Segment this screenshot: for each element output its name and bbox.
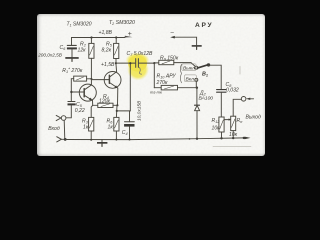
svg-text:Выкл: Выкл bbox=[183, 65, 195, 71]
ground (АРУ line) bbox=[192, 45, 202, 47]
resistor R12 bbox=[219, 117, 224, 132]
svg-text:тг-тк: тг-тк bbox=[150, 89, 163, 94]
resistor R6 (T2 emitter) bbox=[114, 117, 119, 131]
svg-text:+: + bbox=[128, 31, 132, 38]
resistor R1 (base bias, starred) bbox=[74, 76, 87, 81]
svg-text:R9 150к: R9 150к bbox=[160, 56, 179, 62]
supply rail right arrowhead bbox=[125, 36, 133, 38]
node: +1,5V collector node bbox=[115, 62, 117, 64]
box around Выкл bbox=[182, 64, 196, 71]
svg-text:1к: 1к bbox=[83, 124, 89, 130]
node: C4 branch junction bbox=[116, 110, 118, 112]
svg-text:1к: 1к bbox=[108, 124, 114, 130]
transistor T2 bbox=[104, 72, 121, 89]
resistor R5 bbox=[115, 38, 117, 44]
svg-text:8,2к: 8,2к bbox=[102, 48, 112, 54]
svg-text:АРУ: АРУ bbox=[195, 22, 213, 29]
resistor R10 bbox=[154, 87, 161, 89]
wire: T2 emitter with arrow bbox=[110, 83, 118, 88]
switch V1 arm bbox=[198, 65, 209, 68]
node: T2 emitter / R4 junction bbox=[116, 104, 118, 106]
capacitor C6 (electrolytic to ground) bbox=[71, 38, 73, 45]
svg-text:Вход: Вход bbox=[48, 126, 60, 132]
page mottling bbox=[37, 14, 265, 156]
wire: switch pivot to C8 line bbox=[209, 65, 222, 89]
svg-text:+1,5В: +1,5В bbox=[101, 62, 115, 68]
wire: branch to bootstrap vertical bbox=[117, 110, 131, 112]
ground bus (bottom) bbox=[65, 138, 244, 140]
svg-text:Вкл: Вкл bbox=[186, 76, 195, 82]
yellow highlighter over C7 bbox=[126, 53, 150, 81]
svg-text:12к: 12к bbox=[78, 48, 87, 54]
svg-text:200,0х2,5В: 200,0х2,5В bbox=[37, 53, 62, 58]
svg-text:10к: 10к bbox=[229, 132, 238, 138]
node: T1 base junction bbox=[70, 91, 72, 93]
wire: R1 right to collector node bbox=[87, 78, 92, 80]
svg-text:10,0х15В: 10,0х15В bbox=[137, 100, 143, 121]
potentiometer Rn bbox=[231, 116, 236, 130]
wire: C7 to R9/R10 split node bbox=[138, 62, 154, 64]
input lower terminal arrow bbox=[57, 137, 62, 142]
wire: emitter node down to R6 bbox=[115, 105, 118, 117]
node: input-bus junction bbox=[64, 138, 67, 141]
svg-text:Выход: Выход bbox=[246, 114, 261, 120]
node: bus dots bbox=[90, 139, 92, 141]
node: R9/R10 split bbox=[153, 62, 155, 64]
wire: collector node to C7 bbox=[116, 62, 136, 64]
svg-text:270к: 270к bbox=[156, 80, 168, 86]
brace for switch positions bbox=[180, 64, 181, 83]
output jack bbox=[241, 97, 246, 102]
switch V1 lower contact bbox=[195, 78, 198, 81]
node: rail-R2 junction bbox=[90, 36, 92, 38]
wire: bootstrap vertical to collector line bbox=[129, 63, 131, 111]
wire: split node vertical bbox=[153, 63, 155, 88]
ground (below C6) bbox=[65, 57, 78, 59]
wire: T1 emitter with arrow bbox=[84, 95, 92, 100]
svg-text:0,032: 0,032 bbox=[226, 87, 239, 93]
bus end arrowhead bbox=[245, 137, 251, 140]
faint streak bbox=[239, 67, 241, 75]
svg-text:+1,8В: +1,8В bbox=[99, 30, 113, 36]
svg-text:ВА100: ВА100 bbox=[199, 96, 214, 102]
svg-text:120к: 120к bbox=[99, 99, 110, 105]
resistor R9 bbox=[154, 62, 159, 64]
svg-text:R10 АРУ: R10 АРУ bbox=[157, 73, 177, 79]
svg-text:0,22: 0,22 bbox=[75, 108, 85, 114]
wire: T2 collector bbox=[110, 63, 117, 77]
capacitor C7 (AGC coupling, highlighted) bbox=[135, 59, 137, 68]
pen mark under C7 bbox=[139, 68, 141, 75]
faint print bleed line bottom right bbox=[213, 145, 251, 147]
diode D2 bbox=[196, 88, 198, 105]
box around Вкл bbox=[184, 75, 196, 82]
node: bootstrap top junction bbox=[129, 62, 131, 64]
chassis ground symbol on bus bbox=[101, 140, 103, 142]
wire: pot top to output bbox=[233, 99, 241, 116]
scanned page background bbox=[37, 14, 265, 156]
resistor R4 (feedback) bbox=[93, 104, 98, 106]
input jack bbox=[56, 115, 61, 120]
node: R10 / switch line junction bbox=[196, 87, 198, 89]
transistor T1 bbox=[79, 84, 96, 101]
wire: T1 base bbox=[72, 91, 84, 93]
wire: R1 left to base rail bbox=[71, 79, 73, 102]
wire: T2 base (from T1 collector) bbox=[91, 78, 109, 81]
capacitor C4 (electrolytic) bbox=[129, 111, 131, 122]
capacitor C8 bbox=[220, 89, 222, 91]
wire: +1,8V supply rail bbox=[72, 37, 126, 39]
wire: T1 collector bbox=[84, 79, 91, 90]
АРУ output arrow (top) bbox=[175, 37, 197, 45]
capacitor C5 (input coupling) bbox=[68, 101, 75, 103]
resistor R3 (T1 emitter) bbox=[91, 105, 93, 117]
wire: lower contact to R10 line bbox=[195, 81, 197, 87]
potentiometer Rn wiper arrow bbox=[224, 119, 229, 121]
switch V1 upper contact bbox=[195, 66, 198, 69]
svg-text:R1* 270к: R1* 270к bbox=[62, 67, 83, 74]
node: rail-R5 junction bbox=[115, 36, 117, 38]
node: T1 collector / R2 junction bbox=[90, 78, 92, 80]
resistor R2 bbox=[90, 38, 92, 44]
wire: jack sleeve down to bus bbox=[63, 120, 66, 139]
svg-text:10к: 10к bbox=[212, 125, 221, 131]
